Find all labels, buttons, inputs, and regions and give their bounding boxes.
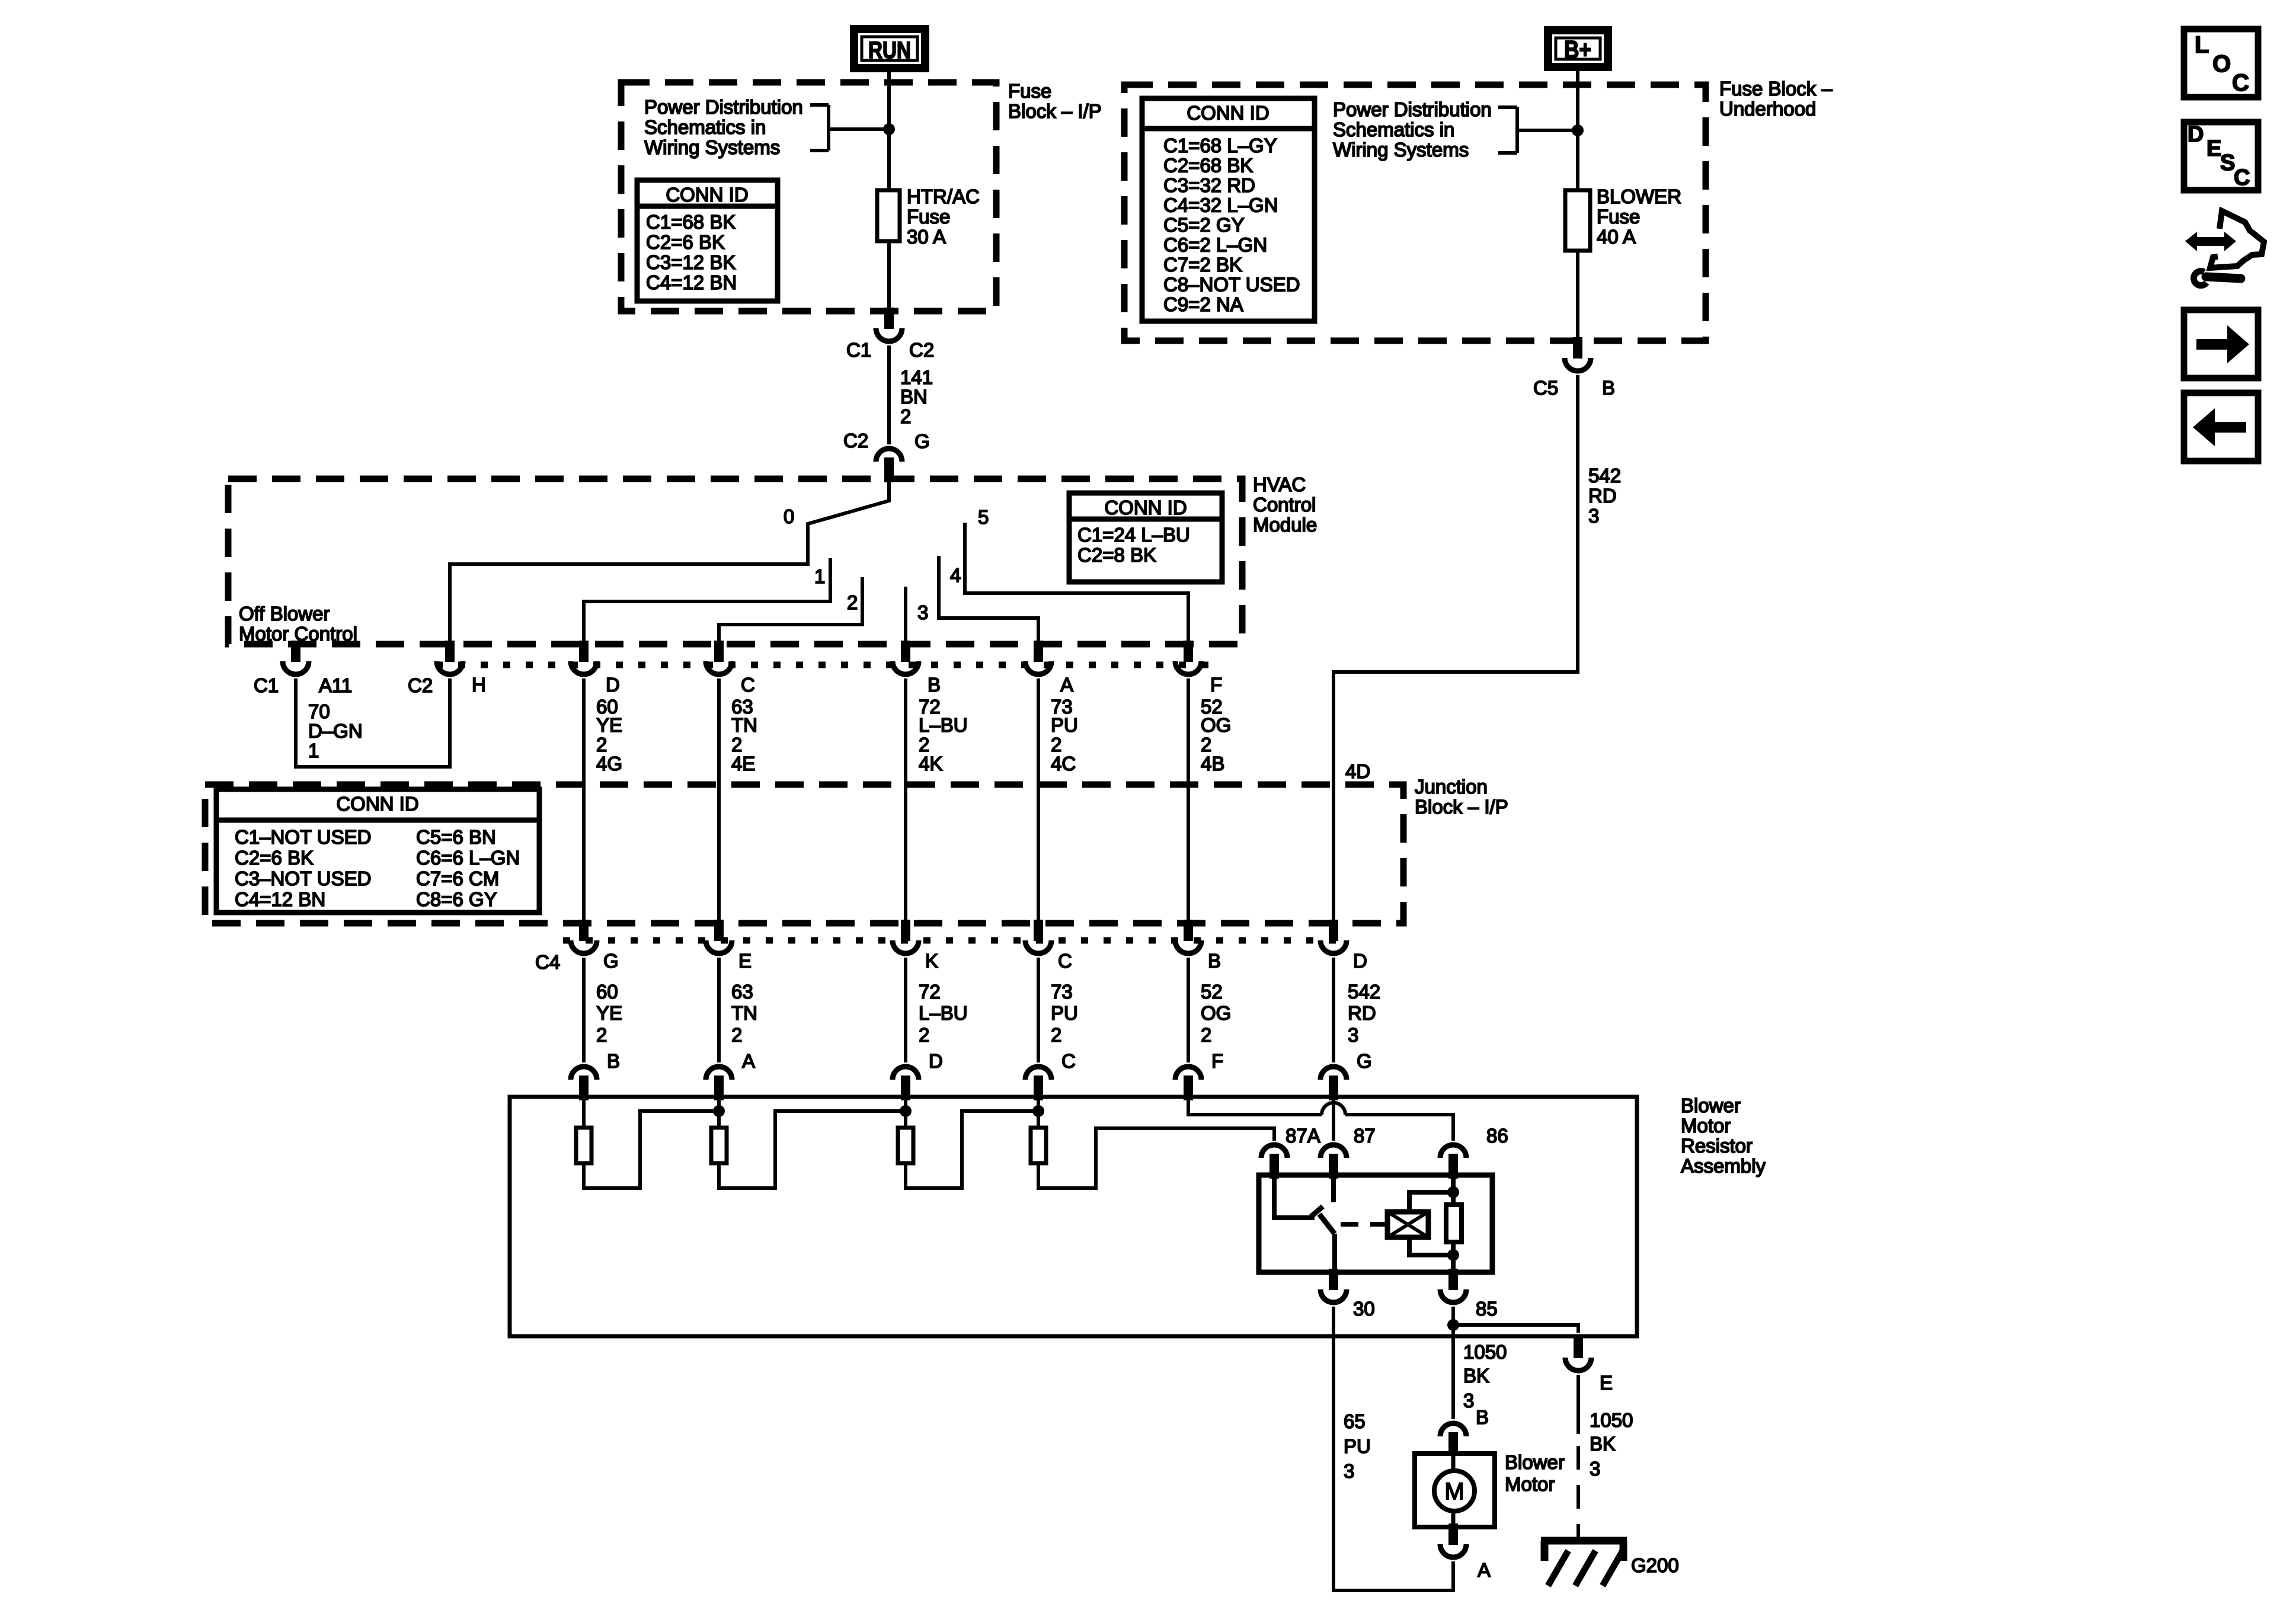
svg-text:63: 63 — [731, 981, 753, 1003]
svg-text:C: C — [1061, 1050, 1076, 1072]
svg-text:C1=68 L–GY: C1=68 L–GY — [1163, 135, 1277, 156]
svg-text:D: D — [606, 674, 620, 696]
svg-text:C4=12 BN: C4=12 BN — [235, 888, 325, 910]
svg-text:Fuse: Fuse — [1008, 80, 1051, 102]
svg-text:Off Blower: Off Blower — [239, 603, 330, 625]
svg-text:B: B — [1208, 950, 1221, 972]
svg-text:C2=68 BK: C2=68 BK — [1163, 155, 1253, 177]
svg-text:PU: PU — [1051, 1002, 1078, 1024]
svg-text:3: 3 — [1348, 1024, 1358, 1046]
svg-text:D: D — [929, 1050, 943, 1072]
svg-text:4G: 4G — [596, 753, 622, 774]
svg-text:CONN ID: CONN ID — [1104, 497, 1187, 518]
svg-text:3: 3 — [1463, 1390, 1474, 1411]
svg-text:C2=6 BK: C2=6 BK — [646, 231, 725, 253]
svg-text:0: 0 — [784, 505, 794, 527]
svg-text:O: O — [2212, 51, 2231, 77]
svg-text:86: 86 — [1486, 1125, 1508, 1147]
svg-text:Resistor: Resistor — [1681, 1135, 1753, 1157]
svg-text:Module: Module — [1253, 514, 1317, 536]
svg-text:TN: TN — [731, 714, 757, 736]
svg-text:Underhood: Underhood — [1719, 98, 1816, 120]
svg-text:C4=12 BN: C4=12 BN — [646, 271, 737, 293]
svg-text:2: 2 — [731, 1024, 742, 1046]
svg-text:BK: BK — [1463, 1365, 1489, 1387]
svg-text:A11: A11 — [319, 674, 352, 696]
svg-text:3: 3 — [1588, 505, 1599, 527]
svg-text:4: 4 — [950, 564, 961, 586]
svg-text:70: 70 — [308, 700, 330, 722]
svg-text:C5: C5 — [1533, 377, 1558, 399]
svg-text:87A: 87A — [1285, 1125, 1320, 1147]
svg-text:2: 2 — [847, 591, 858, 613]
svg-text:C2: C2 — [408, 674, 433, 696]
svg-text:D: D — [1353, 950, 1367, 972]
svg-text:C: C — [2234, 165, 2250, 190]
svg-text:C8–NOT USED: C8–NOT USED — [1163, 274, 1300, 296]
svg-text:Fuse: Fuse — [907, 206, 950, 228]
svg-text:1: 1 — [308, 740, 319, 761]
svg-text:Junction: Junction — [1415, 776, 1488, 798]
svg-text:G: G — [914, 430, 930, 452]
svg-text:YE: YE — [596, 714, 622, 736]
svg-text:S: S — [2220, 151, 2235, 175]
svg-text:C2=6 BK: C2=6 BK — [235, 847, 314, 869]
svg-text:C2: C2 — [909, 339, 934, 361]
svg-text:L–BU: L–BU — [919, 714, 968, 736]
svg-text:4K: 4K — [919, 753, 942, 774]
svg-text:YE: YE — [596, 1002, 622, 1024]
svg-text:1050: 1050 — [1590, 1409, 1633, 1431]
svg-text:73: 73 — [1051, 981, 1073, 1003]
svg-text:60: 60 — [596, 981, 618, 1003]
svg-text:2: 2 — [919, 1024, 929, 1046]
svg-text:HVAC: HVAC — [1253, 473, 1306, 495]
svg-text:B+: B+ — [1564, 36, 1591, 63]
svg-text:Motor: Motor — [1505, 1473, 1555, 1495]
svg-text:RD: RD — [1588, 485, 1617, 507]
svg-text:Power Distribution: Power Distribution — [644, 96, 803, 118]
svg-text:542: 542 — [1588, 465, 1621, 486]
svg-text:RD: RD — [1348, 1002, 1376, 1024]
svg-text:4D: 4D — [1345, 760, 1370, 782]
svg-text:Fuse Block –: Fuse Block – — [1719, 78, 1833, 100]
svg-text:542: 542 — [1348, 981, 1380, 1003]
svg-text:2: 2 — [1201, 1024, 1211, 1046]
svg-text:Block – I/P: Block – I/P — [1415, 796, 1508, 818]
svg-text:2: 2 — [1051, 1024, 1061, 1046]
svg-text:3: 3 — [1590, 1458, 1600, 1480]
svg-text:D–GN: D–GN — [308, 720, 363, 742]
svg-text:C1–NOT USED: C1–NOT USED — [235, 826, 371, 848]
svg-text:H: H — [472, 674, 486, 696]
svg-text:Schematics in: Schematics in — [644, 116, 766, 138]
svg-text:1: 1 — [814, 565, 825, 587]
svg-text:C4=32 L–GN: C4=32 L–GN — [1163, 194, 1278, 216]
svg-text:65: 65 — [1344, 1410, 1366, 1432]
svg-text:1050: 1050 — [1463, 1341, 1507, 1363]
svg-text:E: E — [738, 950, 752, 972]
svg-text:M: M — [1444, 1478, 1464, 1505]
svg-text:RUN: RUN — [868, 37, 911, 63]
svg-text:52: 52 — [1201, 981, 1223, 1003]
svg-text:C7=2 BK: C7=2 BK — [1163, 254, 1242, 276]
svg-text:F: F — [1211, 1050, 1223, 1072]
svg-text:2: 2 — [900, 405, 911, 427]
svg-text:CONN ID: CONN ID — [1187, 102, 1269, 124]
svg-text:C8=6 GY: C8=6 GY — [416, 888, 497, 910]
svg-text:G: G — [1357, 1050, 1372, 1072]
svg-text:Schematics in: Schematics in — [1333, 119, 1454, 140]
svg-text:C3=12 BK: C3=12 BK — [646, 251, 736, 273]
svg-text:85: 85 — [1476, 1298, 1498, 1320]
svg-text:C6=2 L–GN: C6=2 L–GN — [1163, 234, 1267, 256]
svg-text:Fuse: Fuse — [1597, 206, 1640, 228]
svg-text:30 A: 30 A — [907, 226, 946, 248]
svg-text:C4: C4 — [535, 951, 560, 973]
svg-text:B: B — [1476, 1406, 1489, 1428]
svg-text:HTR/AC: HTR/AC — [907, 185, 980, 207]
svg-text:TN: TN — [731, 1002, 757, 1024]
svg-text:Power Distribution: Power Distribution — [1333, 98, 1492, 120]
svg-text:C3=32 RD: C3=32 RD — [1163, 174, 1255, 196]
svg-text:C2: C2 — [843, 430, 868, 452]
svg-text:OG: OG — [1201, 714, 1231, 736]
svg-text:BN: BN — [900, 386, 928, 408]
svg-text:L: L — [2195, 32, 2209, 58]
svg-text:3: 3 — [917, 601, 928, 623]
svg-text:BK: BK — [1590, 1433, 1616, 1455]
svg-text:Motor: Motor — [1681, 1115, 1731, 1137]
svg-text:C3–NOT USED: C3–NOT USED — [235, 868, 371, 889]
svg-text:Wiring Systems: Wiring Systems — [1333, 139, 1469, 161]
svg-text:C: C — [1058, 950, 1072, 972]
svg-text:B: B — [928, 674, 941, 696]
svg-text:4E: 4E — [731, 753, 755, 774]
svg-text:E: E — [2207, 136, 2221, 161]
svg-text:141: 141 — [900, 366, 933, 388]
svg-text:Control: Control — [1253, 494, 1316, 516]
svg-text:Blower: Blower — [1681, 1094, 1741, 1116]
svg-text:G200: G200 — [1631, 1554, 1679, 1576]
svg-text:4C: 4C — [1051, 753, 1076, 774]
svg-text:C1=24 L–BU: C1=24 L–BU — [1077, 524, 1190, 546]
svg-text:E: E — [1600, 1372, 1613, 1394]
svg-text:B: B — [1602, 377, 1615, 399]
svg-text:C2=8 BK: C2=8 BK — [1077, 544, 1156, 566]
svg-text:2: 2 — [596, 1024, 607, 1046]
svg-text:Assembly: Assembly — [1681, 1155, 1766, 1177]
svg-text:C: C — [741, 674, 755, 696]
svg-text:3: 3 — [1344, 1460, 1354, 1482]
svg-text:A: A — [1060, 674, 1073, 696]
svg-text:F: F — [1210, 674, 1222, 696]
svg-text:Block – I/P: Block – I/P — [1008, 100, 1102, 122]
svg-text:C: C — [2232, 70, 2249, 96]
svg-text:A: A — [1478, 1559, 1491, 1581]
svg-text:Blower: Blower — [1505, 1451, 1565, 1473]
svg-text:C1: C1 — [254, 674, 279, 696]
svg-text:A: A — [742, 1050, 755, 1072]
svg-text:L–BU: L–BU — [919, 1002, 968, 1024]
svg-text:G: G — [603, 950, 619, 972]
svg-text:C1=68 BK: C1=68 BK — [646, 211, 736, 233]
svg-text:C6=6 L–GN: C6=6 L–GN — [416, 847, 520, 869]
svg-text:OG: OG — [1201, 1002, 1231, 1024]
svg-text:C5=6 BN: C5=6 BN — [416, 826, 496, 848]
svg-text:4B: 4B — [1201, 753, 1224, 774]
svg-text:PU: PU — [1344, 1435, 1371, 1457]
svg-text:87: 87 — [1354, 1125, 1376, 1147]
svg-text:40 A: 40 A — [1597, 226, 1636, 248]
svg-text:D: D — [2188, 122, 2204, 147]
svg-text:B: B — [607, 1050, 620, 1072]
svg-text:PU: PU — [1051, 714, 1078, 736]
svg-text:K: K — [925, 950, 938, 972]
svg-text:C1: C1 — [846, 339, 871, 361]
svg-text:CONN ID: CONN ID — [666, 184, 748, 206]
svg-text:C9=2 NA: C9=2 NA — [1163, 293, 1243, 315]
svg-text:Wiring Systems: Wiring Systems — [644, 136, 780, 158]
svg-text:C7=6 CM: C7=6 CM — [416, 868, 499, 889]
svg-text:CONN ID: CONN ID — [336, 793, 418, 815]
svg-text:30: 30 — [1353, 1298, 1375, 1320]
svg-text:5: 5 — [978, 506, 989, 528]
svg-text:C5=2 GY: C5=2 GY — [1163, 214, 1245, 236]
svg-text:72: 72 — [919, 981, 941, 1003]
svg-text:BLOWER: BLOWER — [1597, 185, 1681, 207]
